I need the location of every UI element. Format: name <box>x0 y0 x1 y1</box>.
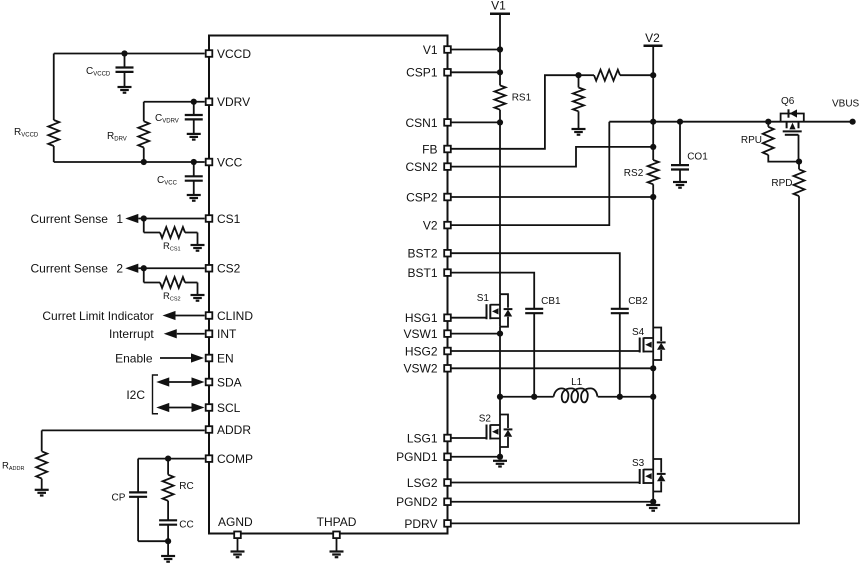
wire CLIND net <box>176 315 205 317</box>
node PGND1 junction <box>497 454 503 460</box>
capacitor CO1 <box>671 122 708 182</box>
wire EN net <box>160 357 191 359</box>
svg-text:CP: CP <box>112 492 126 503</box>
node PGND2 junction <box>650 499 656 505</box>
svg-text:RDRV: RDRV <box>107 131 127 143</box>
wire VCC net <box>54 161 205 163</box>
node VBUS endpoint <box>850 119 856 125</box>
capacitor CB2 <box>611 296 648 397</box>
svg-text:CS1: CS1 <box>217 212 241 226</box>
svg-text:V2: V2 <box>645 31 660 45</box>
node CVCC junction <box>191 159 197 165</box>
capacitor CVDRV <box>155 102 203 134</box>
wire CSP1 net <box>448 71 501 73</box>
supply V2 <box>644 31 663 160</box>
wire S4 source column <box>652 360 654 397</box>
svg-text:V1: V1 <box>423 43 438 57</box>
arrow EN input <box>191 353 204 362</box>
wire S3 source <box>652 492 654 502</box>
wire CC ground stem <box>167 541 169 556</box>
wire V1 pin net <box>448 49 501 51</box>
svg-text:RS2: RS2 <box>624 168 644 179</box>
pin BST2 <box>407 247 450 261</box>
node VCCD junction <box>121 50 127 56</box>
svg-text:2: 2 <box>116 262 123 276</box>
label Curret Limit Indicator <box>42 309 153 323</box>
supply V1 <box>490 0 510 85</box>
ground CC <box>161 556 175 562</box>
svg-text:RPD: RPD <box>771 178 792 189</box>
pin CLIND <box>206 309 254 323</box>
node L1 right junction <box>650 394 656 400</box>
svg-text:RS1: RS1 <box>512 93 532 104</box>
wire V2 pin net <box>448 122 610 225</box>
svg-text:HSG2: HSG2 <box>405 344 438 358</box>
capacitor CB1 <box>525 296 561 397</box>
resistor RPU <box>741 122 799 162</box>
resistor R FB-V2 <box>579 70 654 81</box>
svg-text:S2: S2 <box>479 414 492 425</box>
svg-text:HSG1: HSG1 <box>405 311 438 325</box>
wire VSW2 net <box>448 367 654 369</box>
transistor S3 <box>632 458 666 492</box>
wire BST1 net <box>448 273 535 309</box>
svg-text:RADDR: RADDR <box>2 461 24 473</box>
wire S2 source <box>499 447 501 457</box>
arrow SDA right <box>192 377 205 386</box>
pin THPAD <box>317 515 357 552</box>
wire VDRV net <box>144 102 205 122</box>
capacitor CP <box>112 459 169 542</box>
node V2-row junction <box>650 119 656 125</box>
svg-text:Curret Limit Indicator: Curret Limit Indicator <box>42 309 153 323</box>
pin VSW2 <box>403 362 450 376</box>
pin PGND1 <box>396 450 451 464</box>
transistor Q6 <box>781 96 804 162</box>
resistor RCS1 <box>144 219 198 253</box>
pin HSG1 <box>405 311 451 325</box>
svg-text:Q6: Q6 <box>781 96 795 107</box>
pin V2 <box>423 219 451 233</box>
capacitor CVCC <box>157 162 203 195</box>
svg-text:CSP2: CSP2 <box>406 190 438 204</box>
wire VCCD net <box>54 54 205 121</box>
pin FB <box>422 142 451 156</box>
pin CSN1 <box>405 116 450 130</box>
label Current Sense 1 <box>31 212 124 226</box>
ground CVDRV <box>187 134 201 140</box>
label VBUS <box>832 99 860 110</box>
resistor RVCCD <box>14 120 59 162</box>
svg-text:CS2: CS2 <box>217 262 241 276</box>
wire S1 source column <box>499 327 501 397</box>
svg-text:S3: S3 <box>632 458 645 469</box>
node VSW1 junction <box>497 331 503 337</box>
node CSN2 junction <box>650 144 656 150</box>
wire SDA net <box>169 381 192 383</box>
resistor RDRV <box>107 121 149 162</box>
pin VDRV <box>206 95 250 109</box>
node L1 left junction <box>497 394 503 400</box>
arrow CS1 output <box>125 214 138 223</box>
arrow CS2 output <box>125 264 138 273</box>
svg-text:VBUS: VBUS <box>832 99 860 110</box>
wire VBUS row <box>609 121 852 123</box>
ground RCS2 <box>191 295 205 301</box>
wire CSN1 net <box>448 121 501 123</box>
pin COMP <box>206 452 253 466</box>
capacitor CC <box>159 520 194 542</box>
svg-text:SDA: SDA <box>217 375 242 389</box>
node CS1 junction <box>141 215 147 221</box>
pin VCC <box>206 155 243 169</box>
svg-text:L1: L1 <box>571 377 583 388</box>
node CB2 bottom junction <box>617 394 623 400</box>
svg-text:CSN1: CSN1 <box>405 116 437 130</box>
wire PGND2 net <box>448 501 654 503</box>
pin VCCD <box>206 47 252 61</box>
svg-text:CO1: CO1 <box>687 152 708 163</box>
node CSP2 junction <box>650 194 656 200</box>
wire VSW1 net <box>448 333 501 335</box>
svg-text:RVCCD: RVCCD <box>14 127 39 139</box>
svg-text:I2C: I2C <box>126 388 145 402</box>
svg-text:CC: CC <box>179 520 193 531</box>
inductor L1 <box>554 377 598 402</box>
label Enable <box>115 351 153 365</box>
node R-V2 junction <box>650 72 656 78</box>
ground THPAD <box>330 552 344 558</box>
pin AGND <box>218 515 253 552</box>
svg-text:BST1: BST1 <box>407 266 437 280</box>
svg-text:COMP: COMP <box>217 452 253 466</box>
svg-text:BST2: BST2 <box>407 247 437 261</box>
svg-text:S4: S4 <box>632 327 645 338</box>
wire CS2 net <box>138 267 204 269</box>
label I2C <box>126 388 145 402</box>
svg-text:INT: INT <box>217 327 237 341</box>
wire L1 row left <box>500 396 554 398</box>
svg-text:Current Sense: Current Sense <box>31 212 109 226</box>
wire LSG2 net <box>448 482 640 484</box>
label Interrupt <box>109 327 154 341</box>
svg-text:CVCC: CVCC <box>157 175 178 187</box>
svg-text:FB: FB <box>422 142 437 156</box>
svg-text:VDRV: VDRV <box>217 95 250 109</box>
wire PDRV net <box>448 196 800 523</box>
wire CS1 net <box>138 218 204 220</box>
wire SCL net <box>169 407 192 409</box>
pin PDRV <box>404 517 450 531</box>
node RDRV-VCC junction <box>141 159 147 165</box>
svg-text:VSW2: VSW2 <box>403 362 437 376</box>
svg-text:VCC: VCC <box>217 155 243 169</box>
node CSP1 junction <box>497 69 503 75</box>
svg-text:LSG1: LSG1 <box>407 431 438 445</box>
node V1 junction <box>497 46 503 52</box>
svg-text:CSN2: CSN2 <box>405 160 437 174</box>
transistor S1 <box>477 293 513 327</box>
svg-text:VCCD: VCCD <box>217 47 251 61</box>
node CS2 junction <box>141 265 147 271</box>
label Current Sense 2 <box>31 262 124 276</box>
resistor RPD <box>771 162 804 197</box>
node CSN1 junction <box>497 119 503 125</box>
node CO1 junction <box>677 119 683 125</box>
wire ADDR net <box>42 430 205 451</box>
pin CSN2 <box>405 160 450 174</box>
IC body U1 <box>209 36 448 534</box>
pin SDA <box>206 375 242 389</box>
pin LSG2 <box>407 476 451 490</box>
pin BST1 <box>407 266 450 280</box>
svg-text:V1: V1 <box>491 0 506 13</box>
wire S3 drain column <box>652 397 654 459</box>
resistor RS2 <box>624 160 659 328</box>
pin CSP1 <box>406 66 451 80</box>
pin V1 <box>423 43 451 57</box>
transistor S4 <box>632 327 666 360</box>
wire PGND1 net <box>448 456 501 458</box>
svg-text:PDRV: PDRV <box>404 517 437 531</box>
wire HSG1 net <box>448 317 487 319</box>
ground CVCC <box>187 195 201 201</box>
svg-text:CB1: CB1 <box>541 296 561 307</box>
pin CS1 <box>206 212 241 226</box>
pin VSW1 <box>403 327 450 341</box>
resistor RC <box>163 459 194 521</box>
arrow CLIND output <box>163 311 176 320</box>
node RPD junction <box>796 159 802 165</box>
ground PGND2 <box>646 505 660 511</box>
svg-text:THPAD: THPAD <box>317 515 357 529</box>
svg-text:Current Sense: Current Sense <box>31 262 109 276</box>
node RPU junction <box>765 119 771 125</box>
svg-text:VSW1: VSW1 <box>403 327 437 341</box>
arrow SCL right <box>192 403 205 412</box>
svg-text:PGND2: PGND2 <box>396 495 438 509</box>
svg-text:RCS1: RCS1 <box>163 241 181 253</box>
svg-text:V2: V2 <box>423 219 438 233</box>
pin EN <box>206 351 234 365</box>
pin CSP2 <box>406 190 451 204</box>
wire LSG1 net <box>448 437 487 439</box>
pin SCL <box>206 401 241 415</box>
ground R FB <box>572 129 586 135</box>
pin CS2 <box>206 262 241 276</box>
resistor RS1 <box>495 85 532 294</box>
pin PGND2 <box>396 495 451 509</box>
svg-text:RPU: RPU <box>741 135 762 146</box>
svg-text:CSP1: CSP1 <box>406 66 438 80</box>
node VDRV junction <box>191 99 197 105</box>
bracket I2C <box>153 375 159 414</box>
node COMP bottom junction <box>165 538 171 544</box>
node FB junction <box>575 72 581 78</box>
resistor R FB ground leg <box>573 75 584 129</box>
svg-text:LSG2: LSG2 <box>407 476 438 490</box>
svg-text:RC: RC <box>179 481 193 492</box>
arrow SDA left <box>156 377 169 386</box>
arrow SCL left <box>156 403 169 412</box>
wire INT net <box>177 333 205 335</box>
node COMP junction <box>165 456 171 462</box>
svg-text:RCS2: RCS2 <box>163 291 181 303</box>
svg-text:ADDR: ADDR <box>217 423 251 437</box>
ground RADDR <box>35 490 49 496</box>
svg-text:CB2: CB2 <box>628 296 648 307</box>
resistor RCS2 <box>144 268 198 302</box>
wire BST2 net <box>448 253 620 309</box>
pin INT <box>206 327 237 341</box>
ground CVCCD <box>118 87 132 93</box>
pin ADDR <box>206 423 252 437</box>
svg-text:EN: EN <box>217 351 234 365</box>
svg-text:Enable: Enable <box>115 351 153 365</box>
svg-text:SCL: SCL <box>217 401 241 415</box>
ground RCS1 <box>191 245 205 251</box>
svg-text:PGND1: PGND1 <box>396 450 438 464</box>
wire HSG2 net <box>448 350 640 352</box>
wire CSN2 net <box>448 147 654 167</box>
ground AGND <box>231 552 245 558</box>
wire FB net <box>448 75 579 149</box>
pin LSG1 <box>407 431 451 445</box>
wire COMP net <box>138 458 205 460</box>
arrow INT output <box>164 329 177 338</box>
resistor RADDR <box>2 451 47 490</box>
pin HSG2 <box>405 344 451 358</box>
ground PGND1 <box>493 461 507 467</box>
transistor S2 <box>479 414 513 448</box>
node CB1 bottom junction <box>531 394 537 400</box>
svg-text:AGND: AGND <box>218 515 253 529</box>
svg-text:CLIND: CLIND <box>217 309 253 323</box>
svg-text:CVCCD: CVCCD <box>86 66 111 78</box>
wire L1 row right <box>598 396 654 398</box>
ground CO1 <box>673 182 687 188</box>
wire S2 drain column <box>499 397 501 415</box>
capacitor CVCCD <box>86 54 134 88</box>
svg-text:S1: S1 <box>477 293 490 304</box>
node VSW2 junction <box>650 365 656 371</box>
svg-text:1: 1 <box>116 212 123 226</box>
wire CSP2 net <box>448 196 654 198</box>
svg-text:CVDRV: CVDRV <box>155 113 179 125</box>
svg-text:Interrupt: Interrupt <box>109 327 154 341</box>
